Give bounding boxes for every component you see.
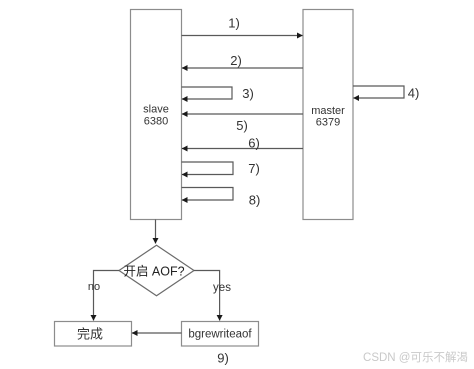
- svg-text:9): 9): [217, 351, 229, 366]
- svg-text:完成: 完成: [77, 327, 103, 342]
- svg-text:6379: 6379: [316, 117, 340, 129]
- svg-text:slave: slave: [143, 104, 169, 116]
- svg-text:3): 3): [242, 86, 254, 101]
- svg-text:CSDN @可乐不解渴: CSDN @可乐不解渴: [363, 350, 468, 364]
- svg-text:no: no: [88, 281, 100, 293]
- svg-text:master: master: [311, 105, 345, 117]
- svg-text:4): 4): [408, 86, 420, 101]
- svg-text:1): 1): [228, 16, 240, 31]
- svg-text:6): 6): [248, 136, 260, 151]
- svg-text:6380: 6380: [144, 116, 168, 128]
- svg-text:5): 5): [236, 118, 248, 133]
- svg-text:2): 2): [230, 53, 242, 68]
- svg-text:yes: yes: [213, 282, 231, 294]
- svg-text:开启 AOF?: 开启 AOF?: [123, 265, 184, 279]
- svg-text:7): 7): [248, 161, 260, 176]
- svg-text:bgrewriteaof: bgrewriteaof: [188, 329, 252, 341]
- svg-text:8): 8): [249, 193, 261, 208]
